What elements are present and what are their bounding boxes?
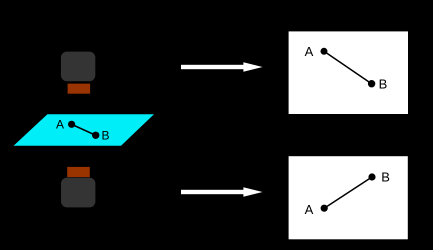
svg-text:A: A: [305, 44, 314, 59]
svg-text:A: A: [305, 202, 314, 217]
svg-text:B: B: [381, 170, 390, 185]
svg-text:A: A: [56, 117, 64, 131]
svg-text:B: B: [379, 76, 388, 91]
svg-text:B: B: [101, 129, 109, 143]
